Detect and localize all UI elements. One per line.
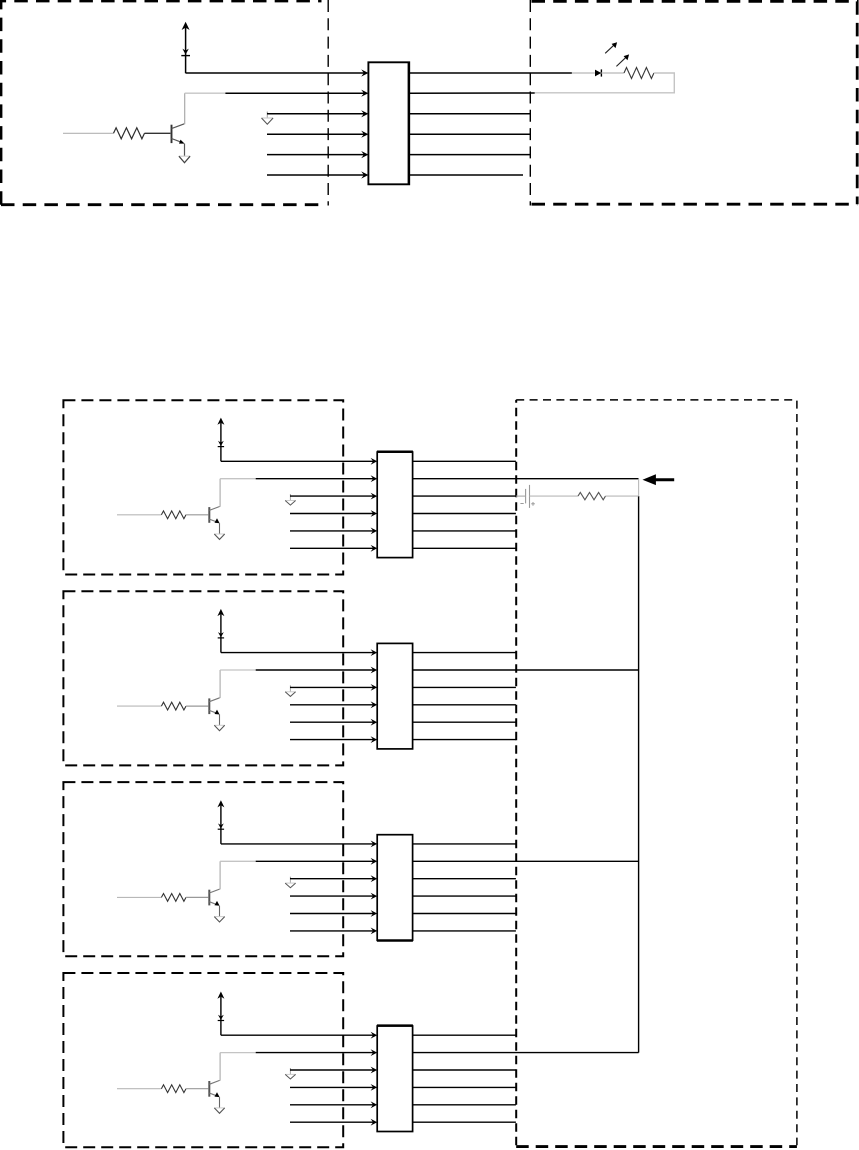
wire: input row 6 to connector (block 4) — [290, 1121, 374, 1123]
wire: connector output row 6 — [409, 174, 523, 176]
wire: input row 6 to connector (block 2) — [290, 739, 374, 741]
wire: connector output row 6 (block 2) — [413, 739, 516, 741]
wire: input row 5 to connector — [267, 154, 365, 156]
resistor (LED series resistor) — [624, 68, 654, 79]
ground (emitter ground, block 4) — [214, 1108, 224, 1113]
ground (input row 3 stub ground) — [262, 112, 274, 125]
wire: connector output row 2 to bus (block 1) — [413, 478, 639, 480]
wire: power rail to connector pin 1 (block 3) — [221, 843, 374, 845]
wire: connector output row 4 — [409, 133, 530, 135]
wire: connector output row 3 (block 1) — [413, 495, 516, 497]
wire: input row 3 to connector (block 4) — [290, 1069, 374, 1071]
transistor Q (block 2, NPN) — [209, 670, 220, 725]
wire: connector output row 2 to bus (block 2) — [413, 669, 639, 671]
dashed separator line (left section right edge) — [327, 0, 329, 206]
resistor (base resistor, block 1) — [117, 511, 208, 519]
wire: resistor to bus (gray) — [606, 495, 639, 497]
wire: vertical bus (right section) — [638, 479, 640, 496]
wire: connector output row 1 (block 3) — [413, 843, 516, 845]
wire: power rail to connector pin 1 (block 1) — [221, 460, 374, 462]
connector block 2 — [377, 643, 412, 749]
wire: input row 6 to connector (block 1) — [290, 547, 374, 549]
ground (emitter ground, block 2) — [214, 725, 224, 730]
wire: connector output row 5 (block 2) — [413, 721, 516, 723]
connector block 4 — [377, 1026, 412, 1132]
wire: connector output row 3 (block 3) — [413, 878, 516, 880]
resistor (base resistor, block 3) — [117, 894, 208, 902]
resistor (base resistor, top driver) — [63, 128, 170, 139]
wire: input row 6 to connector (block 3) — [290, 930, 374, 932]
wire: connector output row 2 to bus (block 4) — [413, 1052, 639, 1054]
transistor Q (block 4, NPN) — [209, 1053, 220, 1108]
wire: connector output row 4 (block 1) — [413, 513, 516, 515]
wire: connector output row 1 to LED anode — [409, 72, 572, 74]
power symbol (supply arrow, block 4) — [217, 992, 224, 1036]
ground (emitter ground, block 3) — [214, 917, 224, 922]
ground (input row 3 stub ground, block 3) — [285, 877, 295, 888]
wire: input row 3 to connector (block 1) — [290, 495, 374, 497]
ground (input row 3 stub ground, block 2) — [285, 685, 295, 696]
wire: battery to resistor (gray) — [530, 495, 579, 497]
wire: collector to connector pin 2 (block 4) — [220, 1052, 256, 1054]
wire: collector to connector pin 2 (block 3) — [220, 860, 256, 862]
wire: input row 4 to connector (block 3) — [290, 895, 374, 897]
transistor Q (top driver, NPN) — [172, 93, 185, 156]
dashed enclosure box: driver block 1 — [63, 400, 343, 574]
wire: input row 3 to connector (block 2) — [290, 686, 374, 688]
dashed enclosure box: top-right LED section — [532, 1, 858, 204]
LED D1 — [595, 42, 629, 76]
wire: power rail to connector pin 1 (block 2) — [221, 652, 374, 654]
wire: input row 4 to connector (block 1) — [290, 513, 374, 515]
power symbol (supply arrow, block 3) — [217, 800, 224, 844]
wire: input row 4 to connector — [267, 133, 365, 135]
wire: connector output row 5 (block 3) — [413, 913, 516, 915]
wire: connector output row 1 (block 2) — [413, 652, 516, 654]
wire: collector to connector pin 2 (block 1) — [220, 478, 256, 480]
wire: input row 3 to connector — [267, 113, 365, 115]
current-flow arrow (bold, pointing left) — [643, 474, 675, 485]
wire: input row 5 to connector (block 3) — [290, 913, 374, 915]
dashed enclosure box: driver block 2 — [63, 591, 343, 765]
connector block 1 — [377, 452, 412, 557]
wire: input row 5 to connector (block 4) — [290, 1104, 374, 1106]
ground (emitter ground, open arrow) — [179, 156, 190, 163]
transistor Q (block 3, NPN) — [209, 861, 220, 916]
connector block (top section header) — [368, 62, 409, 184]
wire: connector output row 3 (block 2) — [413, 686, 516, 688]
wire: connector output row 5 (block 4) — [413, 1104, 516, 1106]
wire: power rail to connector pin 1 (block 4) — [221, 1034, 374, 1036]
ground (input row 3 stub ground, block 4) — [285, 1068, 295, 1079]
wire: input row 4 to connector (block 4) — [290, 1086, 374, 1088]
resistor (base resistor, block 4) — [117, 1085, 208, 1093]
resistor (base resistor, block 2) — [117, 702, 208, 710]
wire: connector output row 2 to bus (block 3) — [413, 860, 639, 862]
wire: connector output row 6 (block 1) — [413, 547, 516, 549]
wire: connector output row 5 — [409, 154, 530, 156]
transistor Q (block 1, NPN) — [209, 479, 220, 534]
power symbol (supply arrow, block 1) — [217, 418, 224, 462]
power symbol (supply arrow) — [181, 22, 190, 73]
wire: connector output row 3 — [409, 113, 530, 115]
ground (emitter ground, block 1) — [214, 534, 224, 539]
wire: connector output row 5 (block 1) — [413, 530, 516, 532]
wire: power rail to connector pin 1 — [186, 72, 365, 74]
dashed enclosure box: driver block 3 — [63, 782, 343, 956]
wire: LED cathode to resistor — [601, 72, 624, 74]
dashed separator line (right section left edge) — [529, 0, 531, 206]
battery BT (gray) — [516, 485, 535, 508]
ground (input row 3 stub ground, block 1) — [285, 494, 295, 505]
connector block 3 — [377, 835, 412, 941]
resistor (bus series resistor) — [578, 492, 606, 499]
wire: input row 5 to connector (block 2) — [290, 721, 374, 723]
wire: connector output row 3 (block 4) — [413, 1069, 516, 1071]
dashed enclosure box: bottom-right load section — [515, 400, 517, 1145]
wire: input row 3 to connector (block 3) — [290, 878, 374, 880]
wire: connector output row 4 (block 2) — [413, 704, 516, 706]
wire: return loop (gray) — [535, 73, 675, 93]
wire: connector output row 1 (block 1) — [413, 460, 516, 462]
wire: connector output row 6 (block 3) — [413, 930, 516, 932]
wire: input row 4 to connector (block 2) — [290, 704, 374, 706]
wire: collector to connector pin 2 (gray then black) — [185, 92, 226, 94]
wire: connector output row 2 (return) — [409, 92, 535, 94]
dashed enclosure box: driver block 4 — [63, 973, 343, 1147]
wire: input row 6 to connector — [267, 174, 365, 176]
wire: input row 5 to connector (block 1) — [290, 530, 374, 532]
dashed enclosure box: top-left driver section — [1, 1, 322, 205]
wire: connector output row 4 (block 3) — [413, 895, 516, 897]
power symbol (supply arrow, block 2) — [217, 609, 224, 653]
wire: connector output row 1 (block 4) — [413, 1034, 516, 1036]
wire: connector output row 6 (block 4) — [413, 1121, 516, 1123]
wire: connector output row 4 (block 4) — [413, 1086, 516, 1088]
wire: collector to connector pin 2 (block 2) — [220, 669, 256, 671]
dashed enclosure box: bottom edge (thick) — [516, 1145, 797, 1148]
